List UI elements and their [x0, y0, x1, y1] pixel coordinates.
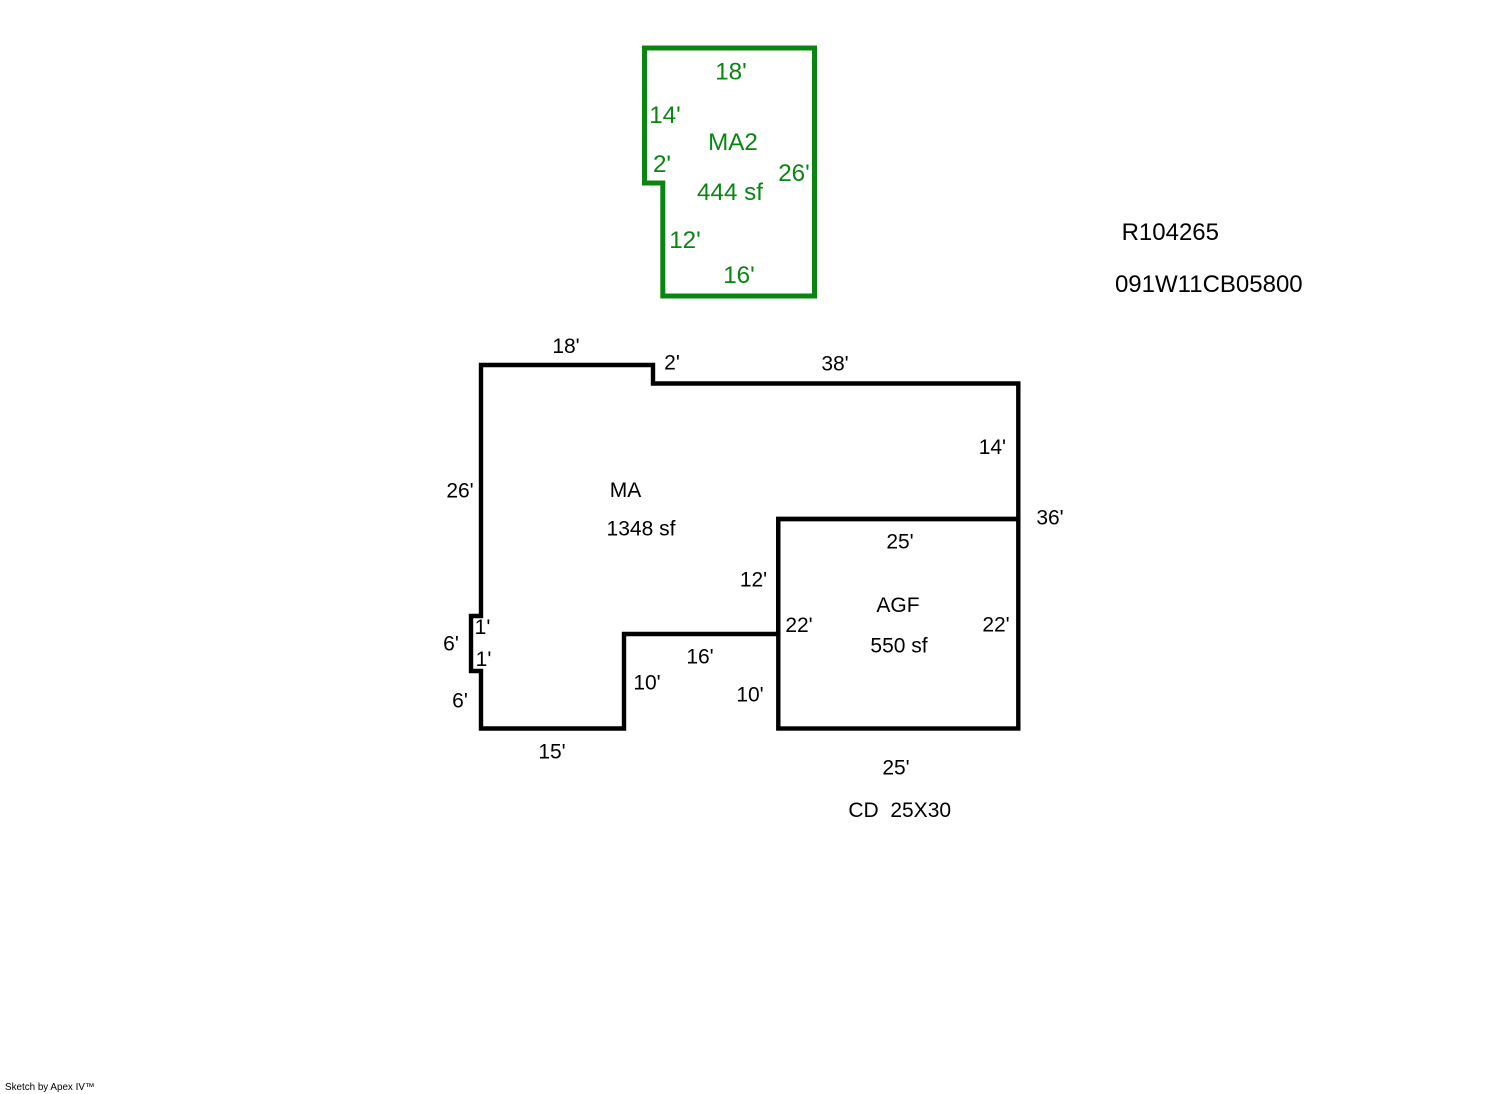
svg-text:6': 6' — [452, 690, 468, 713]
svg-text:16': 16' — [686, 646, 713, 669]
svg-text:R104265: R104265 — [1122, 219, 1219, 246]
svg-text:26': 26' — [778, 160, 810, 187]
svg-text:12': 12' — [669, 227, 701, 254]
svg-text:Sketch by Apex IV™: Sketch by Apex IV™ — [5, 1082, 95, 1093]
svg-text:MA2: MA2 — [708, 129, 758, 156]
svg-text:CD 25X30: CD 25X30 — [848, 799, 951, 822]
svg-text:14': 14' — [979, 436, 1006, 459]
svg-text:10': 10' — [736, 684, 763, 707]
svg-text:22': 22' — [982, 614, 1009, 637]
svg-text:AGF: AGF — [876, 594, 919, 617]
svg-text:1': 1' — [475, 616, 491, 639]
svg-text:26': 26' — [446, 480, 473, 503]
svg-text:38': 38' — [821, 353, 848, 376]
svg-text:1348 sf: 1348 sf — [607, 518, 676, 541]
svg-text:16': 16' — [723, 262, 755, 289]
svg-text:10': 10' — [633, 672, 660, 695]
svg-text:2': 2' — [653, 151, 671, 178]
svg-text:1': 1' — [476, 648, 492, 671]
svg-text:6': 6' — [443, 633, 459, 656]
svg-text:36': 36' — [1036, 507, 1063, 530]
svg-text:444 sf: 444 sf — [697, 179, 763, 206]
svg-text:12': 12' — [740, 569, 767, 592]
svg-text:18': 18' — [552, 335, 579, 358]
svg-text:22': 22' — [785, 614, 812, 637]
svg-text:18': 18' — [715, 58, 747, 85]
svg-text:550 sf: 550 sf — [870, 635, 927, 658]
svg-text:25': 25' — [886, 531, 913, 554]
svg-text:14': 14' — [649, 102, 681, 129]
svg-text:25': 25' — [882, 757, 909, 780]
svg-text:091W11CB05800: 091W11CB05800 — [1115, 271, 1303, 298]
svg-text:2': 2' — [664, 352, 680, 375]
svg-text:15': 15' — [538, 741, 565, 764]
svg-text:MA: MA — [610, 479, 642, 502]
